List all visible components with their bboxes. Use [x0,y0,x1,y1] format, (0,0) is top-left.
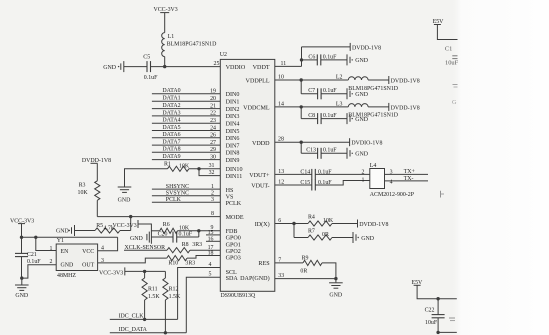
wire pin 33 [275,273,336,279]
svg-text:C15: C15 [300,180,310,186]
svg-text:0.1uF: 0.1uF [323,54,337,60]
wire pin 7 [275,257,303,263]
wire R9 down [322,263,336,279]
svg-text:R9: R9 [302,255,309,261]
svg-text:1.5K: 1.5K [148,294,160,300]
wire to ground (33) [335,279,337,283]
svg-text:C5: C5 [143,55,150,61]
svg-text:VDUT-: VDUT- [251,184,269,190]
wire stub pin 16 [206,237,220,243]
power flag DVDD-1V8 (L3) [389,103,420,111]
svg-text:TX-: TX- [404,176,414,182]
inductor L3 [336,101,399,118]
wire stub pin 15 [206,230,220,236]
svg-text:5: 5 [209,272,212,278]
svg-text:DATA3: DATA3 [162,110,180,116]
svg-text:PCLK: PCLK [226,201,242,207]
svg-text:19: 19 [210,89,216,95]
wire net DATA5 to pin 24 [152,125,220,131]
svg-text:0R: 0R [322,232,329,238]
svg-text:VDDCML: VDDCML [243,105,270,111]
svg-text:GND: GND [329,292,343,298]
svg-text:C6: C6 [308,54,315,60]
ground GND (Y1) [15,285,29,299]
svg-text:GND: GND [130,236,144,242]
pin number 32 [209,170,215,176]
ground GND (C7) [347,88,369,99]
junction C13 [300,141,303,144]
resistor R11 1.5K [142,278,160,300]
wire pin 10 [275,74,349,80]
svg-text:28: 28 [278,137,284,143]
power flag VCC-3V3 (I2C) [99,267,125,276]
svg-text:24: 24 [210,125,216,131]
wire junction to R5 [120,217,131,231]
wire net DATA8 to pin 29 [152,147,220,153]
wire R3 to MODE [96,200,98,216]
svg-text:DIN8: DIN8 [226,151,240,157]
svg-text:VS: VS [226,194,234,200]
capacitor C15 [300,180,332,191]
svg-text:DATA7: DATA7 [162,140,180,146]
svg-text:GPO0: GPO0 [226,236,241,242]
svg-text:RES: RES [258,261,270,267]
wire VCC-3V3 to L1 [164,13,166,33]
resistor R3 10K [78,181,100,200]
resistor R4 10K [308,215,334,226]
svg-text:GND: GND [61,262,75,268]
svg-text:DATA1: DATA1 [162,96,180,102]
svg-text:TX+: TX+ [404,169,416,175]
svg-text:DVDD-1V8: DVDD-1V8 [359,222,388,228]
resistor R7 0R [308,229,332,240]
wire R7 to ground [332,237,353,239]
svg-text:C13: C13 [306,148,316,154]
wire to R4 [294,223,308,225]
wire GND to C5 [124,66,147,68]
wire R1 left to ground [125,169,168,187]
wire VCC rail down [21,224,23,253]
wire R8 to pin 17 [190,245,220,251]
svg-text:GND: GND [15,293,29,299]
capacitor C23 (faded) [449,318,455,321]
wire net DATA7 to pin 27 [152,140,220,146]
svg-text:2: 2 [211,191,214,197]
ground GND (C1, faded) [452,85,458,107]
ground GND (R7) [353,232,375,243]
svg-text:XCLK-SENSOR: XCLK-SENSOR [125,245,166,251]
svg-text:48MHZ: 48MHZ [57,273,76,279]
wire VCC flag to FDB net [138,224,151,244]
svg-text:GND: GND [103,65,117,71]
svg-text:DIN9: DIN9 [226,158,240,164]
svg-text:8: 8 [211,211,214,217]
svg-text:R1: R1 [164,161,171,167]
wire R1 to pin 31 [189,168,221,170]
svg-text:DIN0: DIN0 [226,92,240,98]
svg-text:R3: R3 [79,182,86,188]
wire IDC_DATA to SDA pin 5 [186,272,220,333]
inductor L1 [162,33,217,57]
svg-text:R5: R5 [96,223,103,229]
wire C13 branch [301,142,347,153]
svg-text:SHSYNC: SHSYNC [166,184,189,190]
svg-text:L4: L4 [370,163,377,169]
wire net IDC_CLK [110,313,178,319]
ground GND (pin33) [329,283,343,299]
wire C22 bottom lead [437,318,439,333]
svg-text:R8: R8 [182,242,189,248]
ground GND (R1) [118,187,132,204]
wire net DATA6 to pin 26 [152,132,220,138]
svg-text:GND: GND [118,198,132,204]
svg-text:MODE: MODE [226,215,244,221]
svg-text:26: 26 [210,133,216,139]
wire net SVSYNC to pin 2 [152,190,220,196]
wire C15 to L4 [315,181,370,186]
svg-text:0.1uF: 0.1uF [323,148,337,154]
capacitor C6 [308,54,337,65]
junction FDB [197,229,200,232]
svg-text:6: 6 [278,218,281,224]
svg-text:DIN10: DIN10 [226,167,243,173]
pin number 25 [214,61,220,67]
common-mode choke L4 ACM2012-900-2P [362,163,415,198]
wire C5 to pin 25 [151,66,221,68]
capacitor C13 [306,148,337,159]
svg-text:2: 2 [362,169,365,175]
svg-text:DVDD-1V8: DVDD-1V8 [391,78,420,84]
junction C8 [300,105,303,108]
svg-text:29: 29 [210,147,216,153]
resistor R6 10K [160,222,190,233]
svg-text:DVDIO-1V8: DVDIO-1V8 [351,141,382,147]
wire net DATA3 to pin 22 [152,110,220,116]
resistor R8 3R3 [167,242,202,253]
svg-text:R7: R7 [308,229,315,235]
svg-text:C20: C20 [158,232,168,238]
svg-text:C14: C14 [300,169,310,175]
pin number 31 [209,163,215,169]
svg-text:GPO2: GPO2 [226,249,241,255]
wire R11 to IDC_CLK [144,300,146,319]
resistor R5 4.7k [95,223,120,233]
wire L1 to node VDDIO [164,57,166,67]
svg-text:30: 30 [210,154,216,160]
svg-text:DIN5: DIN5 [226,129,240,135]
junction MODE/R5 [129,215,132,218]
svg-text:32: 32 [209,170,215,176]
wire pin 12 [275,179,312,185]
svg-text:1: 1 [50,246,53,252]
svg-text:OUT: OUT [82,262,95,268]
ground GND (C20) [130,232,149,243]
wire rail to R11 [144,271,146,278]
svg-text:L3: L3 [336,101,343,107]
power flag DVDD-1V8 (R4) [358,220,389,228]
svg-text:VCC-3V3: VCC-3V3 [113,223,137,229]
svg-text:16: 16 [208,237,214,243]
wire VCC rail horizontal [22,236,118,238]
svg-text:4: 4 [390,179,393,185]
svg-text:DATA2: DATA2 [162,103,180,109]
svg-text:22: 22 [210,111,216,117]
svg-text:DIN1: DIN1 [226,100,240,106]
svg-text:10K: 10K [179,164,190,170]
svg-text:GND: GND [355,92,369,98]
svg-text:HS: HS [226,188,234,194]
svg-text:31: 31 [209,163,215,169]
svg-text:R10: R10 [168,261,178,267]
svg-text:DIN11: DIN11 [226,174,243,180]
svg-text:L2: L2 [336,74,343,80]
svg-text:PCLK: PCLK [166,197,182,203]
svg-text:C1: C1 [445,45,452,52]
wire FDB to pin 9 [199,225,221,231]
svg-text:ACM2012-900-2P: ACM2012-900-2P [370,192,415,198]
power flag VCC-3V3 (FDB) [113,220,139,229]
op-amp U2 DS90UB913Q body [220,52,275,299]
junction IDC_DATA/R12 [164,331,167,334]
svg-text:FDB: FDB [226,229,238,235]
power flag DVDD-1V8 (pin11) [350,43,381,51]
resistor R12 1.5K [163,278,181,300]
wire R10 to pin 18 [187,250,220,258]
svg-text:GPO1: GPO1 [226,242,241,248]
junction ID(X) [292,222,295,225]
svg-text:SVSYNC: SVSYNC [166,190,189,196]
svg-text:4: 4 [101,246,104,252]
wire to R7 [294,224,308,238]
svg-text:DATA6: DATA6 [162,132,180,138]
power flag DVDD-1V8 (R3) [82,158,111,164]
svg-text:R4: R4 [308,215,315,221]
wire bottom rail [438,331,457,333]
svg-text:0.1uF: 0.1uF [27,259,41,265]
capacitor C8 [308,113,337,124]
junction R11 rail [143,270,146,273]
wire pin 14 [275,101,349,107]
power flag E5V (top) [433,19,445,25]
svg-text:DATA8: DATA8 [162,147,180,153]
svg-text:18: 18 [208,250,214,256]
svg-text:VDDD: VDDD [252,141,270,147]
wire R4 to flag [332,223,358,225]
svg-text:10uF: 10uF [425,320,438,326]
wire C22 top lead [437,299,439,315]
wire net DATA9 to pin 30 [152,154,220,160]
wire C20 line [151,231,198,237]
svg-text:C21: C21 [27,252,37,258]
wire TX stub (faded) [441,191,445,198]
junction R1/DIN10/DIN11 [197,167,200,170]
svg-text:21: 21 [210,103,216,109]
power flag DVDD-1V8 (L2) [389,76,420,84]
power flag VCC-3V3 (top) [154,7,178,13]
power flag DVDIO-1V8 [350,138,383,146]
svg-text:DIN2: DIN2 [226,107,240,113]
wire L2 to flag [368,79,389,81]
svg-text:10: 10 [278,74,284,80]
svg-text:13: 13 [278,169,284,175]
svg-text:3: 3 [211,197,214,203]
svg-text:DATA9: DATA9 [162,154,180,160]
wire C14 to L4 [315,173,370,175]
svg-text:DIN3: DIN3 [226,114,240,120]
capacitor C22 10uF [425,308,445,327]
svg-text:GND: GND [361,236,375,242]
wire R12 to IDC_DATA [164,300,166,333]
capacitor C21 [15,252,41,265]
svg-text:1: 1 [362,177,365,183]
svg-text:1.5K: 1.5K [169,294,181,300]
svg-text:IDC_DATA: IDC_DATA [119,327,148,333]
svg-text:15: 15 [208,230,214,236]
junction VCC rail B [34,236,37,239]
wire to ground [21,278,23,285]
svg-text:IDC_CLK: IDC_CLK [119,313,145,319]
svg-text:10K: 10K [78,190,89,196]
wire L3 to flag [368,106,389,108]
svg-text:10uF: 10uF [445,59,459,66]
capacitor C1 10uF (faded) [445,45,459,66]
power flag E5V (bottom) [412,280,424,286]
svg-text:BLM18PG471SN1D: BLM18PG471SN1D [348,86,398,92]
capacitor C14 [300,169,332,180]
wire net IDC_DATA [110,327,187,333]
svg-text:C22: C22 [425,308,435,314]
wire C8 branch [301,107,347,119]
ground GND (C5) [103,61,124,72]
svg-text:23: 23 [210,118,216,124]
svg-text:DIN6: DIN6 [226,136,240,142]
svg-text:0.1uF: 0.1uF [144,75,158,81]
wire rail to Y1 VCC pin 4 [98,237,118,250]
wire pin 28 [275,137,350,143]
svg-text:DIN4: DIN4 [226,122,240,128]
capacitor C5 [143,55,158,81]
svg-text:11: 11 [281,61,287,67]
svg-text:R6: R6 [163,222,170,228]
wire C21 to GND junction [21,257,23,279]
svg-text:VDDT: VDDT [253,65,270,71]
svg-text:L1: L1 [168,34,175,40]
svg-text:VCC-3V3: VCC-3V3 [99,270,123,276]
wire Y1 OUT to R10 [98,258,167,263]
svg-text:VDDIO: VDDIO [226,65,246,71]
junction VCC rail A [20,236,23,239]
resistor R1 10K [164,161,190,171]
power flag VCC-3V3 (Y1) [10,218,34,224]
svg-text:C8: C8 [308,113,315,119]
svg-text:0.1uF: 0.1uF [323,113,337,119]
svg-text:DATA0: DATA0 [162,88,180,94]
junction C6 [300,58,303,61]
svg-text:3R3: 3R3 [185,261,195,267]
wire net DATA4 to pin 23 [152,118,220,124]
wire R6 line [151,230,198,232]
svg-text:C7: C7 [308,88,315,94]
svg-text:1: 1 [211,184,214,190]
wire net SHSYNC to pin 1 [152,184,220,190]
junction RES/DAP [334,277,337,280]
svg-text:0.1uF: 0.1uF [323,88,337,94]
junction L1/C5 [163,65,166,68]
svg-text:EN: EN [61,249,70,255]
oscillator Y1 48MHZ body [50,238,105,279]
svg-text:GND: GND [355,152,369,158]
resistor R10 3R3 [167,256,195,267]
svg-text:U2: U2 [220,52,227,58]
svg-text:27: 27 [210,140,216,146]
wire net TX- [385,176,429,182]
svg-text:DATA4: DATA4 [162,118,180,124]
junction IDC_CLK/R11 [143,318,146,321]
wire Y1 GND pin 2 [22,265,57,278]
wire net PCLK to pin 3 [152,197,220,203]
wire C7 branch [301,80,347,94]
junction C22 bottom [436,331,439,334]
inductor L2 [336,74,399,91]
svg-text:GND: GND [355,58,369,64]
wire IDC_CLK to SCL pin 4 [178,262,221,320]
ground GND (C6) [347,54,369,65]
svg-text:3R3: 3R3 [192,242,202,248]
svg-text:DAP(GND): DAP(GND) [240,275,269,282]
wire C6 line [302,59,348,61]
svg-text:GND: GND [56,229,70,235]
wire MODE pin 8 [97,211,220,217]
svg-text:25: 25 [214,61,220,67]
wire pin 11 [275,47,302,67]
wire DVDD-1V8 to R3 [96,163,98,181]
svg-text:0R: 0R [300,268,307,274]
svg-text:GND: GND [355,117,369,123]
ground GND (C13) [347,148,369,159]
wire E5V top [437,25,457,40]
svg-text:GPO3: GPO3 [226,256,241,262]
junction GND rail [20,276,23,279]
capacitor C7 [308,88,337,99]
svg-text:4: 4 [209,262,212,268]
wire net DATA1 to pin 20 [152,96,220,102]
svg-text:VCC: VCC [82,249,94,255]
wire pullup rail [125,270,166,272]
svg-text:DS90UB913Q: DS90UB913Q [221,293,256,299]
wire to DVDD flag (pin11) [302,46,351,48]
wire net DATA2 to pin 21 [152,103,220,109]
svg-text:R11: R11 [148,287,158,293]
wire net TX+ [385,169,429,175]
svg-text:VDUT+: VDUT+ [249,173,270,179]
junction C22 top [436,297,439,300]
wire pin 13 [275,169,312,175]
wire E5V bottom [417,285,457,298]
svg-text:0.1uF: 0.1uF [179,232,193,238]
wire pin 6 [275,218,294,224]
svg-text:12: 12 [278,179,284,185]
svg-text:BLM18PG471SN1D: BLM18PG471SN1D [167,42,217,48]
wire to pin 32 [199,169,220,176]
IC U2 pin name labels [226,65,271,282]
svg-text:14: 14 [278,101,284,107]
svg-text:7: 7 [278,257,281,263]
svg-text:DVDD-1V8: DVDD-1V8 [352,45,381,51]
wire net XCLK-SENSOR [124,245,167,251]
svg-text:33: 33 [278,273,284,279]
svg-text:DVDD-1V8: DVDD-1V8 [391,105,420,111]
wire net DATA0 to pin 19 [152,88,220,94]
